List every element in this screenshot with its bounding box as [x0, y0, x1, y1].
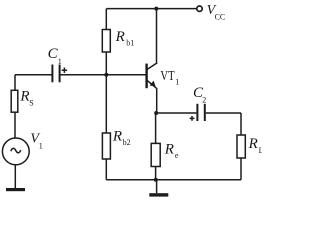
svg-text:L: L: [259, 146, 262, 155]
svg-text:R: R: [164, 141, 174, 157]
svg-text:e: e: [175, 151, 179, 160]
svg-text:b1: b1: [126, 38, 134, 47]
svg-text:1: 1: [58, 57, 62, 66]
svg-text:R: R: [115, 29, 125, 45]
svg-text:b2: b2: [123, 138, 131, 147]
svg-text:R: R: [112, 129, 122, 145]
svg-text:2: 2: [202, 96, 206, 105]
svg-text:R: R: [248, 136, 258, 152]
svg-text:1: 1: [175, 78, 179, 87]
svg-text:VT: VT: [160, 68, 175, 84]
svg-text:CC: CC: [215, 12, 226, 21]
svg-text:S: S: [29, 99, 33, 108]
svg-text:1: 1: [39, 141, 43, 150]
svg-text:R: R: [19, 88, 29, 104]
